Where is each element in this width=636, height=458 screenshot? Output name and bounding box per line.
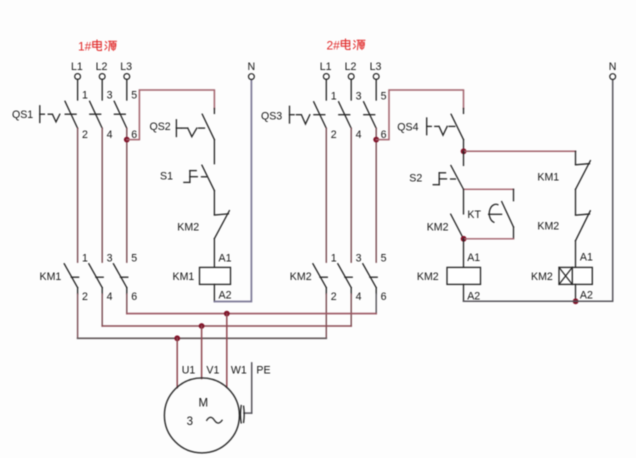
coil KM2 crossed-box (right) (531, 267, 592, 284)
svg-text:A1: A1 (580, 251, 593, 263)
wire KM1 pole2 to bus3 (77, 288, 79, 294)
pole 3-4 (339, 114, 350, 116)
node L2 (left) (96, 61, 108, 79)
svg-text:1#: 1# (78, 40, 92, 54)
svg-text:KM1: KM1 (537, 172, 559, 184)
switch QS4 (397, 114, 463, 139)
ground frame arcs (240, 406, 244, 423)
svg-text:KM1: KM1 (173, 271, 195, 283)
wire S1 to KM2 contact (213, 191, 215, 215)
wire QS4 to junction (463, 140, 465, 152)
pole 5-6 (114, 113, 125, 115)
wire KM2 pole6 to bus1 (375, 288, 377, 294)
node junction at bottom right (573, 298, 579, 304)
svg-text:L2: L2 (345, 61, 357, 73)
contact KM2 NC aux (left) (177, 211, 229, 239)
wire right branch down to KM1 NC (575, 151, 577, 164)
svg-text:A1: A1 (219, 253, 232, 265)
switch QS3 (261, 102, 376, 129)
wire QS1 pole2 down to KM1 (77, 128, 79, 262)
svg-text:L2: L2 (96, 61, 108, 73)
wire KM1 pole6 to bus1 (126, 288, 128, 294)
wire bottom to N (right) (464, 80, 613, 302)
svg-text:3: 3 (107, 90, 113, 102)
wire bus V (pole4-pole4) (102, 325, 351, 327)
contact KT time-delay (467, 202, 513, 227)
label 2#电源 (327, 39, 365, 53)
wire down to KT coil (575, 241, 577, 268)
contactor KM2 main contacts (290, 264, 377, 288)
wire drop U1 (176, 338, 178, 387)
svg-text:KM2: KM2 (531, 271, 553, 283)
pushbutton S2 (409, 166, 463, 190)
svg-text:A1: A1 (467, 252, 480, 264)
svg-text:L3: L3 (120, 61, 132, 73)
svg-text:1: 1 (331, 91, 337, 103)
svg-text:M: M (199, 397, 209, 409)
node N (right) (609, 61, 617, 80)
svg-text:2#: 2# (327, 39, 341, 53)
svg-text:KM2: KM2 (177, 222, 199, 234)
contactor KM1 main contacts (40, 264, 128, 288)
pin labels KM2 top 1,3,5 (331, 253, 387, 265)
wire bus W (pole6-pole6) (127, 313, 376, 315)
wire between NC contacts (575, 189, 577, 214)
wire KM2 contact to coil KM1 (213, 239, 215, 268)
pole 3-4 (90, 113, 101, 115)
pin labels QS3 top 1,3,5 (331, 91, 387, 103)
switch QS1 (12, 101, 127, 128)
wire QS3 pole4 down to KM2 (350, 128, 352, 262)
svg-text:5: 5 (131, 90, 137, 102)
svg-text:2: 2 (331, 291, 337, 303)
wire KM1 coil A2 down (213, 284, 215, 301)
wire L2 top stub (101, 79, 103, 100)
node junction at QS3 pole 6 (373, 137, 379, 143)
wire junction to right branch (464, 150, 576, 152)
node junction at QS1 pole 6 (124, 137, 130, 143)
pin labels KM1 bottom 2,4,6 (82, 291, 137, 303)
wire KM2 pole4 to bus2 (350, 288, 352, 294)
svg-text:4: 4 (356, 129, 362, 141)
svg-text:5: 5 (131, 253, 137, 265)
wire KM1 pole4 to bus2 (101, 288, 103, 294)
pin labels QS1 bottom 2,4,6 (82, 129, 137, 141)
wire QS1 pole6 down to KM1 (126, 128, 128, 262)
pole 1-2 (314, 114, 325, 116)
svg-text:2: 2 (82, 129, 88, 141)
svg-text:4: 4 (356, 291, 362, 303)
wire bus U (pole2-pole2) (78, 337, 327, 339)
node N (left) (248, 61, 256, 80)
svg-text:KM1: KM1 (40, 271, 62, 283)
wire KM2 coil A2 down (463, 284, 465, 301)
node junction bus V (199, 323, 205, 329)
svg-text:3: 3 (356, 91, 362, 103)
svg-text:3: 3 (107, 253, 113, 265)
wire KT bottom stub (513, 227, 515, 239)
wire KT branch bottom (464, 238, 514, 240)
svg-text:5: 5 (381, 91, 387, 103)
wire QS2 top stub (213, 109, 215, 114)
svg-text:A2: A2 (219, 290, 232, 302)
wire PE (244, 363, 252, 413)
contact KM2 NO aux (self hold) (427, 214, 464, 239)
label 1#电源 (78, 40, 116, 54)
svg-text:QS1: QS1 (12, 109, 33, 121)
node junction bus U (174, 335, 180, 341)
wire L3 top stub (126, 79, 128, 100)
wire L3 top stub (right) (375, 79, 377, 100)
svg-text:1: 1 (331, 253, 337, 265)
coil KM1 (173, 267, 231, 284)
svg-text:6: 6 (131, 291, 137, 303)
svg-text:2: 2 (82, 291, 88, 303)
node junction below QS4 (461, 148, 467, 154)
svg-text:4: 4 (107, 291, 113, 303)
contact KM2 NC (right branch) (537, 211, 590, 241)
wire KT branch right stub (513, 189, 515, 200)
node L3 (left) (120, 61, 132, 79)
svg-text:N: N (248, 61, 256, 73)
svg-text:V1: V1 (206, 364, 219, 376)
wire drop W1 (226, 314, 228, 388)
wire branch to QS2 (127, 90, 215, 140)
pin labels KM2 bottom 2,4,6 (331, 291, 387, 303)
svg-text:QS4: QS4 (397, 122, 418, 134)
wire QS2 to S1 (213, 140, 215, 164)
pin labels QS3 bottom 2,4,6 (331, 129, 387, 141)
pushbutton S1 (160, 165, 214, 190)
svg-text:L1: L1 (71, 61, 83, 73)
wire KM2 pole2 to bus3 (325, 288, 327, 294)
node junction below KM2 NO (461, 236, 467, 242)
switch QS2 (150, 114, 215, 139)
svg-text:S1: S1 (160, 171, 173, 183)
svg-text:U1: U1 (182, 364, 196, 376)
svg-text:KM2: KM2 (417, 271, 439, 283)
svg-text:PE: PE (256, 365, 270, 377)
node L1 (right) (320, 61, 332, 79)
svg-text:L1: L1 (320, 61, 332, 73)
svg-text:4: 4 (107, 129, 113, 141)
contact KM1 NC interlock (537, 161, 590, 190)
wire L1 top stub (77, 79, 79, 100)
pin labels QS1 top 1,3,5 (82, 90, 137, 102)
node junction bus W (224, 311, 230, 317)
wire L1 top stub (right) (325, 79, 327, 100)
node L2 (right) (345, 61, 357, 79)
wire branch to QS4 (376, 90, 463, 140)
svg-text:KM2: KM2 (427, 221, 449, 233)
svg-text:A2: A2 (580, 290, 593, 302)
wire QS3 pole6 down to KM2 (375, 128, 377, 262)
terminal labels U1 V1 W1 PE (182, 364, 271, 376)
pole 1-2 (65, 113, 76, 115)
svg-text:1: 1 (82, 253, 88, 265)
node L3 (right) (370, 61, 382, 79)
wire S2 bottom to KT branch (464, 188, 514, 190)
wire L2 top stub (right) (350, 79, 352, 100)
svg-text:3: 3 (356, 253, 362, 265)
coil KM2 (middle) (417, 267, 481, 284)
svg-text:5: 5 (381, 253, 387, 265)
svg-text:KM2: KM2 (537, 220, 559, 232)
motor M (164, 378, 239, 453)
svg-text:3: 3 (187, 416, 193, 428)
svg-text:KM2: KM2 (290, 271, 312, 283)
wire right coil A2 down (575, 284, 577, 301)
wire A2 to N (left) (214, 80, 251, 302)
wire drop V1 (201, 326, 203, 379)
svg-text:6: 6 (381, 291, 387, 303)
svg-text:W1: W1 (231, 364, 247, 376)
svg-text:1: 1 (82, 90, 88, 102)
svg-text:KT: KT (467, 209, 481, 221)
wire down to KM2 coil (463, 239, 465, 268)
svg-text:S2: S2 (409, 173, 422, 185)
wire QS1 pole4 down to KM1 (101, 128, 103, 262)
pin labels KM1 top 1,3,5 (82, 253, 137, 265)
node L1 (left) (71, 61, 83, 79)
svg-text:QS2: QS2 (150, 121, 171, 133)
pole 5-6 (364, 114, 375, 116)
wire S2 bottom down (463, 189, 465, 214)
svg-text:L3: L3 (370, 61, 382, 73)
wire junction down to S2 (463, 151, 465, 165)
svg-text:2: 2 (331, 129, 337, 141)
svg-text:N: N (609, 61, 617, 73)
wire QS4 top stub (463, 109, 465, 114)
wire QS3 pole2 down to KM2 (325, 128, 327, 262)
svg-text:QS3: QS3 (261, 111, 282, 123)
